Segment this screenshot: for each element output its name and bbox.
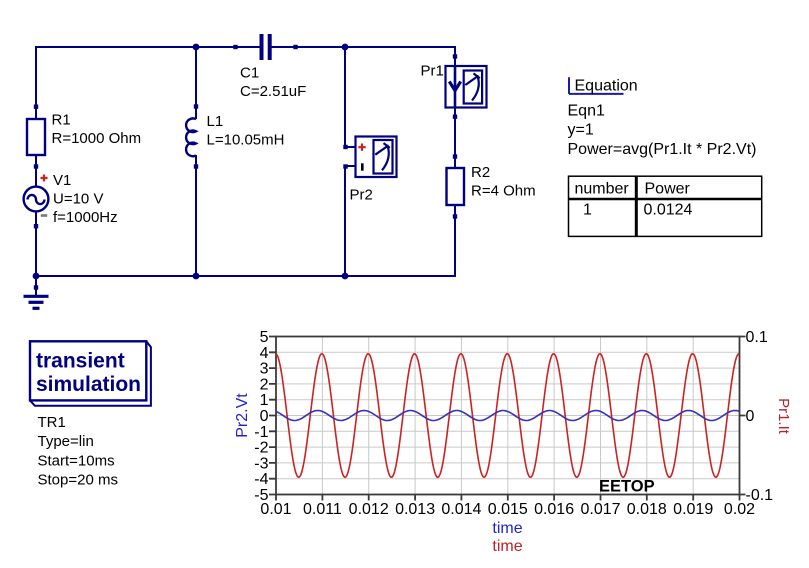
svg-text:L=10.05mH: L=10.05mH [207, 132, 285, 149]
wire L1 branch upper [195, 47, 197, 119]
svg-text:R2: R2 [471, 164, 490, 181]
node junction bottom Pr2 [342, 273, 349, 280]
svg-text:Pr2: Pr2 [350, 187, 373, 204]
voltage source V1 [24, 172, 118, 228]
node junction top Pr2 [342, 44, 349, 51]
wire Pr2 branch upper [345, 47, 355, 147]
svg-text:-3: -3 [254, 455, 268, 472]
right axis value labels [746, 329, 774, 504]
svg-text:Pr1: Pr1 [421, 63, 444, 80]
transient simulation block TR1 [30, 341, 151, 488]
curve Pr2.Vt blue [276, 411, 740, 421]
svg-text:0.01: 0.01 [260, 501, 291, 518]
ground [24, 276, 49, 308]
capacitor C1 [233, 34, 306, 100]
svg-text:0: 0 [260, 408, 269, 425]
svg-text:0.015: 0.015 [488, 501, 528, 518]
svg-text:Equation: Equation [575, 77, 638, 94]
svg-text:L1: L1 [207, 113, 224, 130]
left axis value labels [254, 329, 268, 504]
svg-text:number: number [575, 180, 630, 197]
svg-text:0.016: 0.016 [534, 501, 574, 518]
svg-text:4: 4 [260, 345, 269, 362]
node junction top L1 [193, 44, 200, 51]
svg-text:-4: -4 [254, 471, 268, 488]
svg-text:0.02: 0.02 [724, 501, 755, 518]
svg-text:0.013: 0.013 [395, 501, 435, 518]
svg-text:0: 0 [746, 408, 755, 425]
axis ticks [269, 337, 746, 501]
diagram grid [276, 337, 740, 495]
equation block Eqn1 [568, 77, 757, 158]
wire L1 branch lower [195, 155, 197, 276]
wire Pr2 branch lower [345, 166, 355, 276]
wire bottom rail [36, 275, 455, 277]
svg-text:0.014: 0.014 [441, 501, 481, 518]
svg-text:Pr2.Vt: Pr2.Vt [234, 393, 251, 438]
wire top from C1 to Pr1 [271, 46, 455, 48]
svg-text:R=1000 Ohm: R=1000 Ohm [52, 130, 142, 147]
svg-text:0.011: 0.011 [303, 501, 342, 518]
curve Pr1.It red [276, 354, 739, 478]
svg-text:time: time [492, 538, 522, 555]
svg-text:simulation: simulation [36, 373, 141, 396]
svg-text:U=10 V: U=10 V [53, 191, 103, 208]
svg-text:V1: V1 [53, 172, 71, 189]
wire top from R1 to C1 [36, 46, 260, 48]
svg-text:3: 3 [260, 361, 269, 378]
svg-text:0.0124: 0.0124 [644, 202, 693, 219]
node junction bottom ground [33, 273, 40, 280]
svg-text:C1: C1 [240, 65, 259, 82]
svg-text:f=1000Hz: f=1000Hz [53, 209, 118, 226]
svg-text:5: 5 [260, 329, 269, 346]
svg-text:0.1: 0.1 [746, 329, 768, 346]
svg-text:transient: transient [36, 349, 125, 372]
svg-text:R=4 Ohm: R=4 Ohm [471, 183, 536, 200]
svg-text:1: 1 [260, 392, 269, 409]
svg-text:2: 2 [260, 376, 269, 393]
svg-text:Eqn1: Eqn1 [568, 102, 605, 119]
svg-text:0.019: 0.019 [673, 501, 713, 518]
svg-text:time: time [492, 520, 522, 537]
result table [569, 176, 762, 236]
svg-text:y=1: y=1 [568, 122, 594, 139]
wire R1 to V1 [35, 155, 37, 187]
inductor L1 [186, 104, 284, 168]
resistor R1 [27, 105, 141, 169]
svg-text:Pr1.It: Pr1.It [775, 398, 792, 435]
svg-text:Type=lin: Type=lin [38, 433, 94, 450]
node junction bottom L1 [193, 273, 200, 280]
resistor R2 [447, 154, 536, 218]
wire left branch vertical [35, 46, 37, 119]
ammeter probe Pr1 [421, 54, 487, 119]
wire R2 to bottom rail [454, 205, 456, 277]
svg-text:C=2.51uF: C=2.51uF [240, 83, 306, 100]
svg-text:Power=avg(Pr1.It * Pr2.Vt): Power=avg(Pr1.It * Pr2.Vt) [568, 141, 757, 158]
svg-text:Stop=20 ms: Stop=20 ms [38, 472, 118, 489]
svg-text:-1: -1 [254, 424, 268, 441]
svg-text:R1: R1 [52, 112, 71, 129]
voltmeter probe Pr2 [343, 137, 396, 204]
wire right branch Pr1 to R2 [454, 46, 456, 168]
svg-text:TR1: TR1 [38, 414, 66, 431]
x axis value labels [260, 501, 755, 518]
svg-text:Power: Power [645, 180, 691, 197]
diagram frame [276, 337, 740, 495]
svg-text:EETOP: EETOP [599, 478, 655, 496]
svg-text:0.017: 0.017 [580, 501, 620, 518]
svg-text:0.012: 0.012 [349, 501, 389, 518]
svg-text:1: 1 [583, 201, 592, 218]
svg-text:Start=10ms: Start=10ms [38, 452, 115, 469]
svg-text:-2: -2 [254, 440, 268, 457]
wire V1 to bottom [35, 211, 37, 276]
svg-text:0.018: 0.018 [627, 501, 667, 518]
